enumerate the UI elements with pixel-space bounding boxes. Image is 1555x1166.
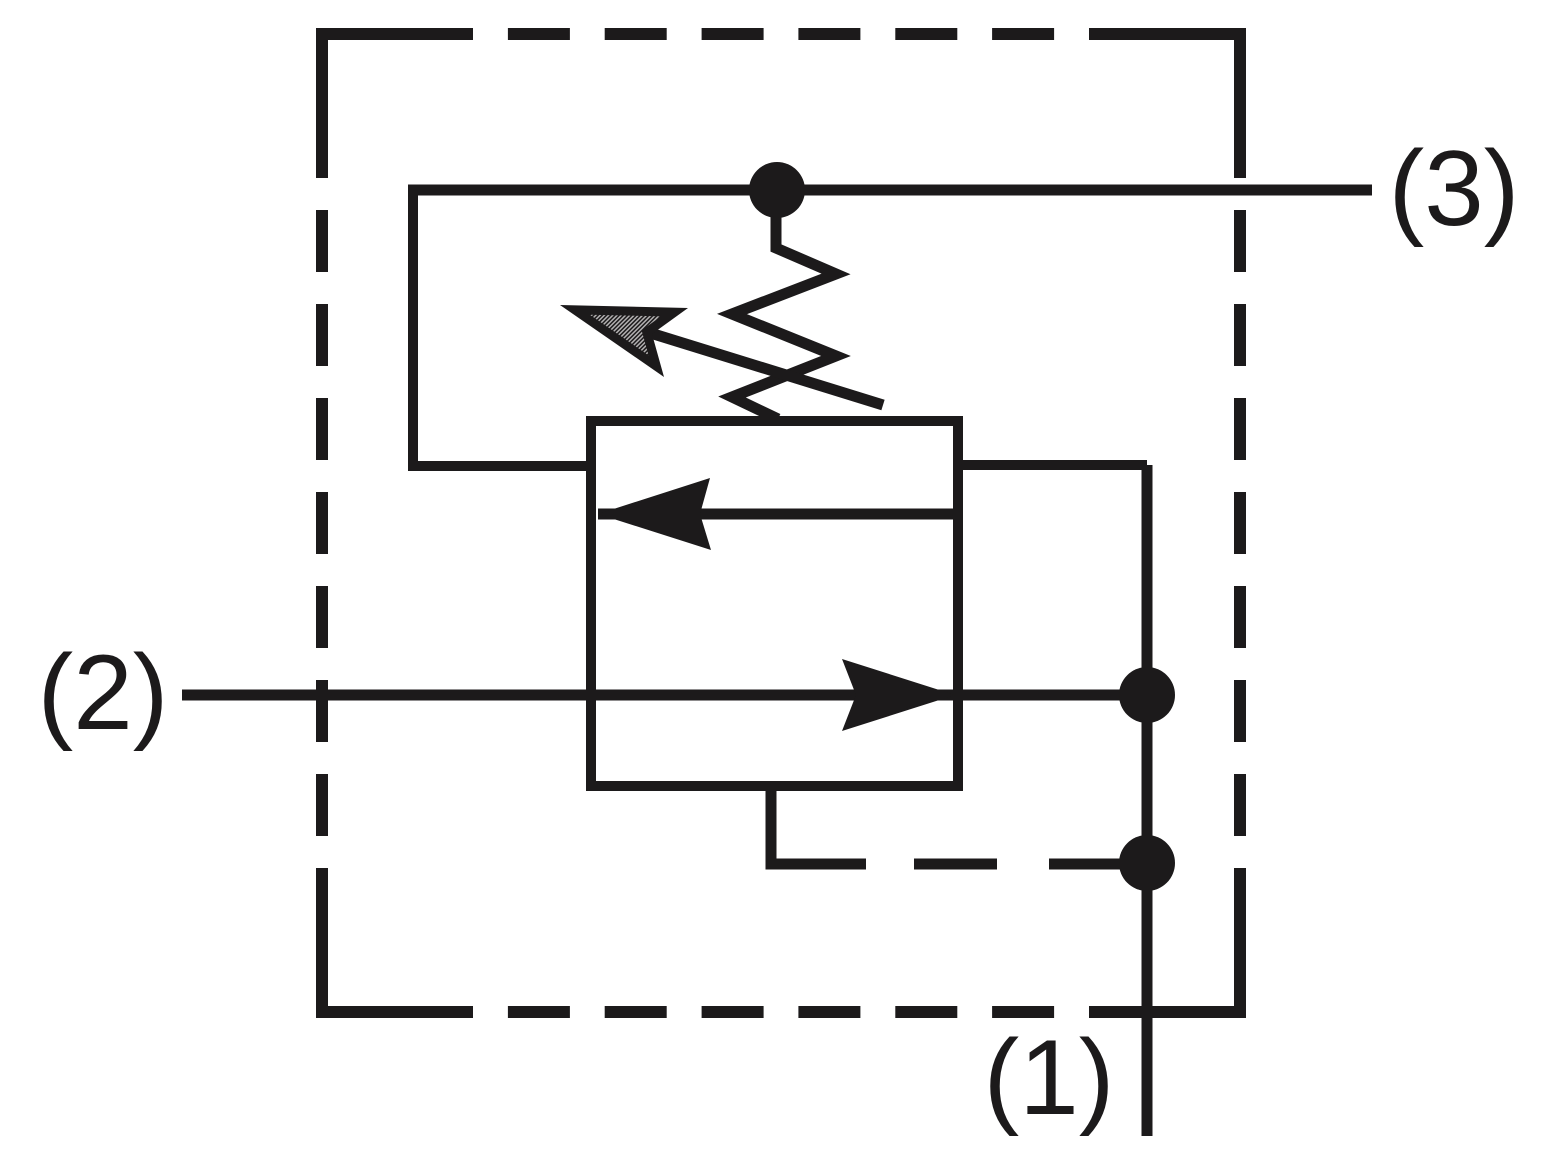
svg-text:(3): (3) xyxy=(1389,128,1520,248)
svg-text:(1): (1) xyxy=(984,1017,1115,1137)
svg-text:(2): (2) xyxy=(38,632,169,752)
